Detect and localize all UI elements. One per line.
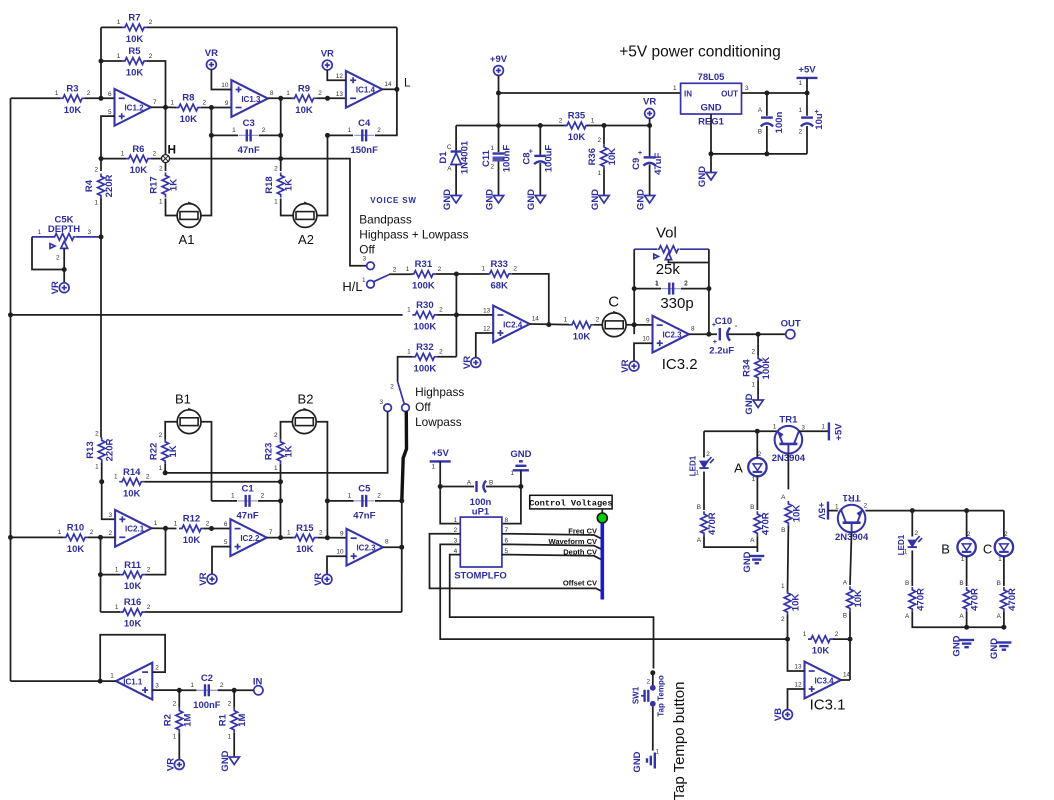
svg-text:A: A bbox=[750, 537, 755, 544]
wire 10u bottom lead bbox=[806, 126, 808, 154]
svg-text:100K: 100K bbox=[412, 281, 435, 292]
svg-text:2: 2 bbox=[390, 384, 394, 391]
svg-text:+9V: +9V bbox=[490, 54, 508, 65]
junction R34 bbox=[756, 332, 761, 337]
capacitor C10 2.2uF bbox=[719, 328, 721, 340]
svg-text:2: 2 bbox=[203, 99, 207, 106]
wire R2 top lead bbox=[178, 690, 180, 707]
svg-text:1: 1 bbox=[231, 492, 235, 499]
wire C9 top lead bbox=[649, 126, 651, 158]
wire H/L to R31 bbox=[389, 273, 412, 275]
svg-text:13: 13 bbox=[794, 664, 802, 671]
wire TR1 emitter down bbox=[787, 454, 789, 490]
junction R23/R14 bbox=[278, 479, 283, 484]
wire bandpass column to R18 bbox=[280, 98, 282, 171]
wire R32 right bbox=[437, 356, 456, 358]
svg-text:1: 1 bbox=[803, 631, 807, 638]
svg-text:10K: 10K bbox=[67, 544, 85, 555]
ground R1 bbox=[229, 757, 239, 765]
svg-text:1: 1 bbox=[94, 200, 98, 207]
svg-text:6: 6 bbox=[108, 91, 112, 98]
svg-text:C8: C8 bbox=[522, 152, 533, 164]
wire LED1 left top lead bbox=[703, 431, 705, 457]
svg-text:100nF: 100nF bbox=[193, 700, 221, 711]
wire IC3.4 output bbox=[841, 679, 850, 681]
wire right bank bottom bbox=[912, 612, 1004, 627]
svg-text:2: 2 bbox=[56, 255, 60, 262]
svg-text:Depth CV: Depth CV bbox=[563, 547, 597, 556]
svg-text:10: 10 bbox=[642, 336, 650, 343]
potentiometer Vol 25k bbox=[634, 248, 657, 250]
wire B2 right down to IC2.3 - bbox=[316, 422, 327, 538]
svg-text:2: 2 bbox=[220, 682, 224, 689]
power flag VR below depth pot bbox=[59, 283, 69, 293]
junction rail C8 bbox=[538, 123, 543, 128]
svg-text:B: B bbox=[941, 542, 950, 557]
op-amp IC2.3 bottom bbox=[347, 529, 383, 566]
svg-text:GND: GND bbox=[442, 189, 453, 210]
svg-text:OUT: OUT bbox=[781, 318, 801, 329]
svg-text:R17: R17 bbox=[149, 176, 160, 193]
junction C5 left bbox=[325, 498, 330, 503]
wire Depth CV bbox=[510, 555, 602, 560]
junction IC2.1 out bbox=[163, 526, 168, 531]
op-amp IC1.4 bbox=[346, 71, 382, 108]
junction R3/IC1.2 - bbox=[99, 96, 104, 101]
svg-text:A: A bbox=[997, 613, 1002, 620]
svg-text:A: A bbox=[447, 166, 452, 173]
svg-text:2: 2 bbox=[706, 451, 710, 458]
wire GND to uP1 pin8 bbox=[502, 470, 521, 523]
svg-text:1: 1 bbox=[695, 470, 699, 477]
junction R22/switch line bbox=[163, 470, 168, 475]
svg-text:10u: 10u bbox=[814, 113, 825, 130]
power flag VR below IC2.3 bbox=[322, 574, 332, 584]
svg-text:47nF: 47nF bbox=[353, 511, 375, 522]
junction 330p right bbox=[706, 286, 711, 291]
resistor R7 bbox=[122, 24, 147, 31]
svg-text:2: 2 bbox=[261, 492, 265, 499]
svg-text:B1: B1 bbox=[175, 392, 191, 407]
wire +5V stub bbox=[806, 78, 808, 93]
svg-text:GND: GND bbox=[590, 189, 601, 210]
svg-text:10K: 10K bbox=[812, 646, 830, 657]
wire C3 right lead bbox=[259, 134, 281, 136]
svg-text:2: 2 bbox=[146, 474, 150, 481]
wire +9V down bbox=[498, 75, 500, 125]
svg-text:2: 2 bbox=[319, 529, 323, 536]
svg-text:1: 1 bbox=[58, 529, 62, 536]
ground SW1 bbox=[654, 753, 656, 769]
svg-text:1K: 1K bbox=[284, 179, 295, 191]
svg-text:2: 2 bbox=[159, 432, 163, 439]
capacitor C1 bbox=[238, 500, 258, 502]
capacitor C5 bbox=[354, 500, 374, 502]
microcontroller uP1 STOMPLFO bbox=[460, 517, 502, 567]
svg-text:1K: 1K bbox=[169, 179, 180, 191]
wire R4 to depth pot bbox=[100, 199, 102, 237]
svg-text:VR: VR bbox=[50, 281, 61, 294]
svg-text:3: 3 bbox=[109, 512, 113, 519]
wire C1 right lead bbox=[258, 500, 281, 502]
svg-text:+5V: +5V bbox=[815, 502, 826, 520]
resistor R10 bbox=[63, 534, 88, 541]
svg-text:R15: R15 bbox=[296, 523, 314, 534]
svg-text:C11: C11 bbox=[481, 149, 492, 167]
wire to IC3.4 node bbox=[787, 615, 789, 639]
svg-text:1: 1 bbox=[232, 127, 236, 134]
svg-text:3: 3 bbox=[745, 85, 749, 92]
wire IC2.1 out to R12 bbox=[152, 527, 177, 529]
resistor R35 bbox=[564, 122, 589, 129]
wire TR2 collector rail bbox=[865, 510, 1004, 512]
wire IC2.3 out bbox=[383, 546, 402, 548]
wire column to IC3.4 out bbox=[849, 639, 851, 680]
svg-text:2: 2 bbox=[318, 90, 322, 97]
svg-text:100K: 100K bbox=[414, 322, 437, 333]
wire R11 left lead bbox=[101, 574, 121, 576]
ground D1 bbox=[451, 196, 461, 204]
svg-text:R10: R10 bbox=[67, 523, 84, 534]
resistor R30 bbox=[412, 312, 437, 319]
svg-text:330p: 330p bbox=[660, 295, 693, 312]
resistor 10K TR2 emitter bbox=[847, 586, 854, 611]
svg-text:IC1.3: IC1.3 bbox=[241, 95, 261, 104]
wire IC3.4 + to VB bbox=[788, 689, 805, 710]
wire R34 top lead bbox=[757, 334, 759, 355]
wire reg gnd stub bbox=[710, 154, 712, 173]
junction H line/R18 bbox=[278, 156, 283, 161]
wire R14 right to bandpass column bbox=[144, 481, 280, 483]
control voltages blue bus bar bbox=[600, 523, 604, 600]
capacitor C3 bbox=[239, 134, 259, 136]
resistor 10K horizontal bbox=[808, 636, 833, 643]
wire R16 right long bbox=[145, 611, 402, 613]
svg-text:1: 1 bbox=[286, 90, 290, 97]
wire R30 to IC2.4 - bbox=[437, 314, 493, 316]
ground C11 bbox=[493, 196, 503, 204]
svg-text:Tap Tempo: Tap Tempo bbox=[657, 675, 666, 717]
svg-text:10K: 10K bbox=[183, 535, 201, 546]
svg-text:13: 13 bbox=[336, 91, 344, 98]
svg-text:1K: 1K bbox=[168, 445, 179, 457]
svg-text:1: 1 bbox=[55, 90, 59, 97]
svg-text:1: 1 bbox=[274, 465, 278, 472]
op-amp IC2.4 bbox=[493, 306, 529, 343]
junction 10K right bbox=[848, 637, 853, 642]
svg-text:uP1: uP1 bbox=[472, 507, 490, 518]
svg-text:10K: 10K bbox=[130, 165, 148, 176]
svg-text:150nF: 150nF bbox=[350, 145, 378, 156]
LED C circle bbox=[995, 538, 1013, 556]
junction 100n right bbox=[518, 484, 523, 489]
resistor R9 bbox=[292, 95, 317, 102]
resistor 10K TR1 emitter bbox=[785, 501, 792, 526]
svg-text:R5: R5 bbox=[128, 46, 141, 57]
svg-text:R31: R31 bbox=[415, 259, 433, 270]
svg-text:B: B bbox=[959, 580, 963, 587]
svg-text:1: 1 bbox=[773, 424, 777, 431]
svg-text:STOMPLFO: STOMPLFO bbox=[454, 570, 507, 581]
svg-text:1K: 1K bbox=[284, 445, 295, 457]
wire left VR bus down to R13 bbox=[100, 237, 102, 438]
svg-text:VR: VR bbox=[462, 356, 473, 369]
wire uP1 pin4 stub bbox=[452, 554, 460, 556]
capacitor C9 plates bbox=[644, 156, 656, 158]
svg-text:1: 1 bbox=[190, 682, 194, 689]
resistor 10K mid bbox=[569, 321, 594, 328]
wire R9 right to IC1.4 - bbox=[317, 97, 346, 99]
svg-text:1: 1 bbox=[115, 604, 119, 611]
junction R30/column bbox=[454, 312, 459, 317]
wire B branch bottom bbox=[966, 612, 968, 627]
wire rail R35 to C9 bbox=[587, 125, 650, 127]
wire R5 left bbox=[101, 60, 122, 62]
wire C9 bottom lead bbox=[649, 165, 651, 196]
wire VR to IC1.3 + bbox=[211, 70, 231, 90]
power flag +9V bbox=[494, 66, 504, 76]
svg-text:10K: 10K bbox=[64, 105, 82, 116]
junction 100n left bbox=[438, 484, 443, 489]
wire to SW1 contact bbox=[652, 673, 654, 685]
capacitor C8 plates bbox=[534, 155, 546, 157]
svg-text:C10: C10 bbox=[715, 316, 732, 327]
wire R34 bottom lead bbox=[757, 381, 759, 400]
wire C2 right lead bbox=[218, 689, 235, 691]
resistor R22 bbox=[162, 439, 169, 464]
svg-text:1: 1 bbox=[274, 199, 278, 206]
svg-text:2: 2 bbox=[596, 317, 600, 324]
junction R8/C3 bbox=[209, 105, 214, 110]
wire to 78L05 IN bbox=[499, 92, 681, 94]
resistor R33 bbox=[487, 271, 512, 278]
svg-text:A: A bbox=[758, 107, 763, 114]
svg-text:1: 1 bbox=[454, 517, 458, 524]
resistor R16 bbox=[120, 609, 145, 616]
svg-text:H/L: H/L bbox=[342, 279, 362, 294]
resistor R5 bbox=[122, 58, 147, 65]
wire R1 top lead bbox=[233, 690, 235, 707]
junction left bus/R10 bbox=[8, 535, 13, 540]
wire R6 left bbox=[101, 158, 126, 160]
LED LED1 left bbox=[699, 457, 713, 468]
svg-text:1: 1 bbox=[655, 281, 659, 288]
wire R36 top lead bbox=[603, 126, 605, 145]
svg-text:B: B bbox=[758, 129, 762, 136]
svg-text:TR1: TR1 bbox=[842, 492, 861, 503]
svg-text:C: C bbox=[983, 542, 992, 557]
wire down to C3 left bbox=[210, 108, 212, 136]
svg-text:A: A bbox=[697, 537, 702, 544]
wire IC3.2 + to VR bbox=[634, 343, 653, 361]
junction reg gnd stem bbox=[709, 151, 714, 156]
svg-text:1: 1 bbox=[407, 307, 411, 314]
svg-text:2: 2 bbox=[835, 631, 839, 638]
C5K wiper arrow bbox=[61, 241, 68, 248]
wire IC2.4 + to VR bbox=[476, 333, 493, 358]
svg-text:2: 2 bbox=[147, 604, 151, 611]
svg-text:VR: VR bbox=[205, 48, 218, 59]
svg-text:C2: C2 bbox=[201, 673, 213, 684]
junction gnd rail bbox=[764, 151, 769, 156]
svg-text:1: 1 bbox=[287, 529, 291, 536]
wire switch to R22 node bbox=[165, 412, 387, 473]
svg-text:VR: VR bbox=[198, 572, 209, 585]
svg-text:10K: 10K bbox=[295, 105, 313, 116]
wire between 10K resistors bbox=[787, 526, 790, 592]
junction R11 left bbox=[98, 572, 103, 577]
svg-text:2: 2 bbox=[781, 616, 785, 623]
svg-text:C9: C9 bbox=[631, 158, 642, 170]
svg-text:2.2uF: 2.2uF bbox=[709, 346, 734, 357]
junction out/100n bbox=[764, 91, 769, 96]
svg-text:2: 2 bbox=[438, 266, 442, 273]
op-amp IC2.2 bbox=[230, 519, 266, 556]
svg-text:GND: GND bbox=[697, 166, 708, 187]
junction IC1.2 out node H bbox=[163, 105, 168, 110]
svg-text:100n: 100n bbox=[774, 111, 785, 133]
label box Control Voltages bbox=[530, 495, 612, 509]
svg-text:R23: R23 bbox=[264, 443, 275, 460]
wire left input bus bbox=[10, 98, 12, 681]
wire TR2 emitter down bbox=[850, 532, 852, 585]
wire R7 left bbox=[101, 26, 122, 28]
wire uP1 pin2 stub bbox=[452, 533, 460, 535]
wire C10 to OUT bbox=[729, 333, 786, 335]
svg-text:1: 1 bbox=[117, 53, 121, 60]
wire B2 left to R23 bbox=[281, 422, 293, 440]
wire R31 to R33 bbox=[436, 273, 489, 275]
resistor R4 bbox=[98, 174, 105, 199]
svg-text:1: 1 bbox=[591, 117, 595, 124]
junction C/feedback column bbox=[632, 322, 637, 327]
svg-text:A: A bbox=[905, 613, 910, 620]
svg-text:2: 2 bbox=[393, 267, 397, 274]
wire +5V to TR2 bbox=[828, 510, 838, 512]
svg-text:3: 3 bbox=[379, 399, 383, 406]
svg-text:1: 1 bbox=[117, 19, 121, 26]
wire Waveform CV bbox=[510, 544, 602, 549]
svg-text:1: 1 bbox=[228, 734, 232, 741]
svg-text:470R: 470R bbox=[707, 512, 718, 535]
wire B1 right down to C1 bbox=[201, 422, 212, 501]
junction R10/R11 column bbox=[98, 535, 103, 540]
LED LED1 right bbox=[908, 536, 922, 547]
wire LED1 right top lead bbox=[911, 511, 913, 537]
wire R6 right to H bbox=[151, 158, 162, 160]
svg-text:1: 1 bbox=[998, 556, 1002, 563]
svg-text:10K: 10K bbox=[791, 594, 802, 612]
wire regulator ground rail bbox=[711, 114, 807, 154]
power flag +5V TR2 (rotated) bbox=[827, 502, 829, 520]
svg-text:C1: C1 bbox=[242, 484, 255, 495]
svg-text:R16: R16 bbox=[124, 597, 141, 608]
svg-text:VOICE SW: VOICE SW bbox=[370, 196, 416, 205]
wire R17 to A1 bbox=[166, 199, 178, 216]
svg-text:R1: R1 bbox=[217, 713, 228, 726]
svg-text:1: 1 bbox=[171, 99, 175, 106]
svg-text:C4: C4 bbox=[358, 118, 371, 129]
svg-text:3: 3 bbox=[88, 229, 92, 236]
wire Vol right column bbox=[708, 249, 710, 334]
junction R14 left bbox=[99, 479, 104, 484]
resistor R12 bbox=[179, 525, 204, 532]
svg-text:1: 1 bbox=[481, 266, 485, 273]
svg-text:2: 2 bbox=[206, 520, 210, 527]
svg-text:14: 14 bbox=[532, 316, 540, 323]
svg-text:SW1: SW1 bbox=[632, 686, 641, 704]
svg-text:2: 2 bbox=[864, 503, 868, 510]
wire C5 left lead bbox=[327, 500, 353, 502]
resistor R34 bbox=[755, 356, 762, 381]
svg-text:R22: R22 bbox=[148, 443, 159, 460]
svg-text:A2: A2 bbox=[298, 232, 314, 247]
wire A LED top lead bbox=[756, 431, 758, 458]
wire R11 right up to IC2.1 out bbox=[145, 528, 165, 574]
svg-text:Highpass + Lowpass: Highpass + Lowpass bbox=[359, 228, 468, 242]
svg-text:Off: Off bbox=[415, 400, 431, 414]
svg-text:R6: R6 bbox=[132, 144, 144, 155]
wire C5 right lead bbox=[375, 500, 402, 502]
resistor 10K lower bbox=[784, 590, 791, 615]
svg-text:GND: GND bbox=[510, 449, 531, 460]
wire Freq CV bbox=[510, 534, 602, 539]
ground C8 bbox=[535, 196, 545, 204]
wire R32 left down bbox=[398, 357, 413, 382]
power flag VR below R2 bbox=[174, 760, 184, 770]
svg-text:470R: 470R bbox=[915, 588, 926, 611]
svg-text:IC1.1: IC1.1 bbox=[123, 678, 143, 687]
resistor R31 bbox=[411, 271, 436, 278]
svg-text:1: 1 bbox=[348, 492, 352, 499]
svg-text:14: 14 bbox=[843, 672, 851, 679]
wire VR stub bbox=[649, 118, 651, 125]
svg-text:2: 2 bbox=[798, 129, 802, 136]
svg-text:3: 3 bbox=[362, 256, 366, 263]
svg-text:Bandpass: Bandpass bbox=[359, 213, 412, 227]
power flag VR below IC2.4 bbox=[471, 358, 481, 368]
node H marker bbox=[162, 155, 170, 163]
wire lowpass column down to R16 bbox=[401, 501, 403, 612]
resistor R14 bbox=[119, 478, 144, 485]
resistor R15 bbox=[292, 534, 317, 541]
svg-text:3: 3 bbox=[155, 683, 159, 690]
wire IC1.1 feedback loop bbox=[100, 635, 165, 681]
wire left feedback column bbox=[100, 27, 102, 98]
svg-text:1: 1 bbox=[510, 470, 514, 477]
wire 10u top lead bbox=[806, 93, 808, 116]
svg-text:7: 7 bbox=[153, 99, 157, 106]
wire C2 left lead bbox=[179, 689, 196, 691]
wire +5V to uP1 pin1 bbox=[440, 461, 460, 523]
svg-text:1: 1 bbox=[173, 734, 177, 741]
wire C4 right to L node bbox=[375, 89, 397, 135]
wire uP1 pin3 stub bbox=[452, 543, 460, 545]
svg-text:GND: GND bbox=[220, 750, 231, 771]
svg-text:2: 2 bbox=[646, 679, 650, 686]
wire C LED to 470R bbox=[1003, 556, 1005, 586]
svg-text:47nF: 47nF bbox=[238, 145, 260, 156]
svg-text:2: 2 bbox=[90, 529, 94, 536]
junction B GND bbox=[964, 625, 969, 630]
port IN bbox=[254, 686, 263, 695]
op-amp IC2.1 bbox=[115, 510, 151, 547]
svg-text:+5V: +5V bbox=[798, 64, 816, 75]
svg-text:10K: 10K bbox=[126, 34, 144, 45]
switch VOICE SW upper contact bbox=[367, 262, 375, 270]
svg-text:B: B bbox=[905, 580, 909, 587]
svg-text:1: 1 bbox=[159, 465, 163, 472]
